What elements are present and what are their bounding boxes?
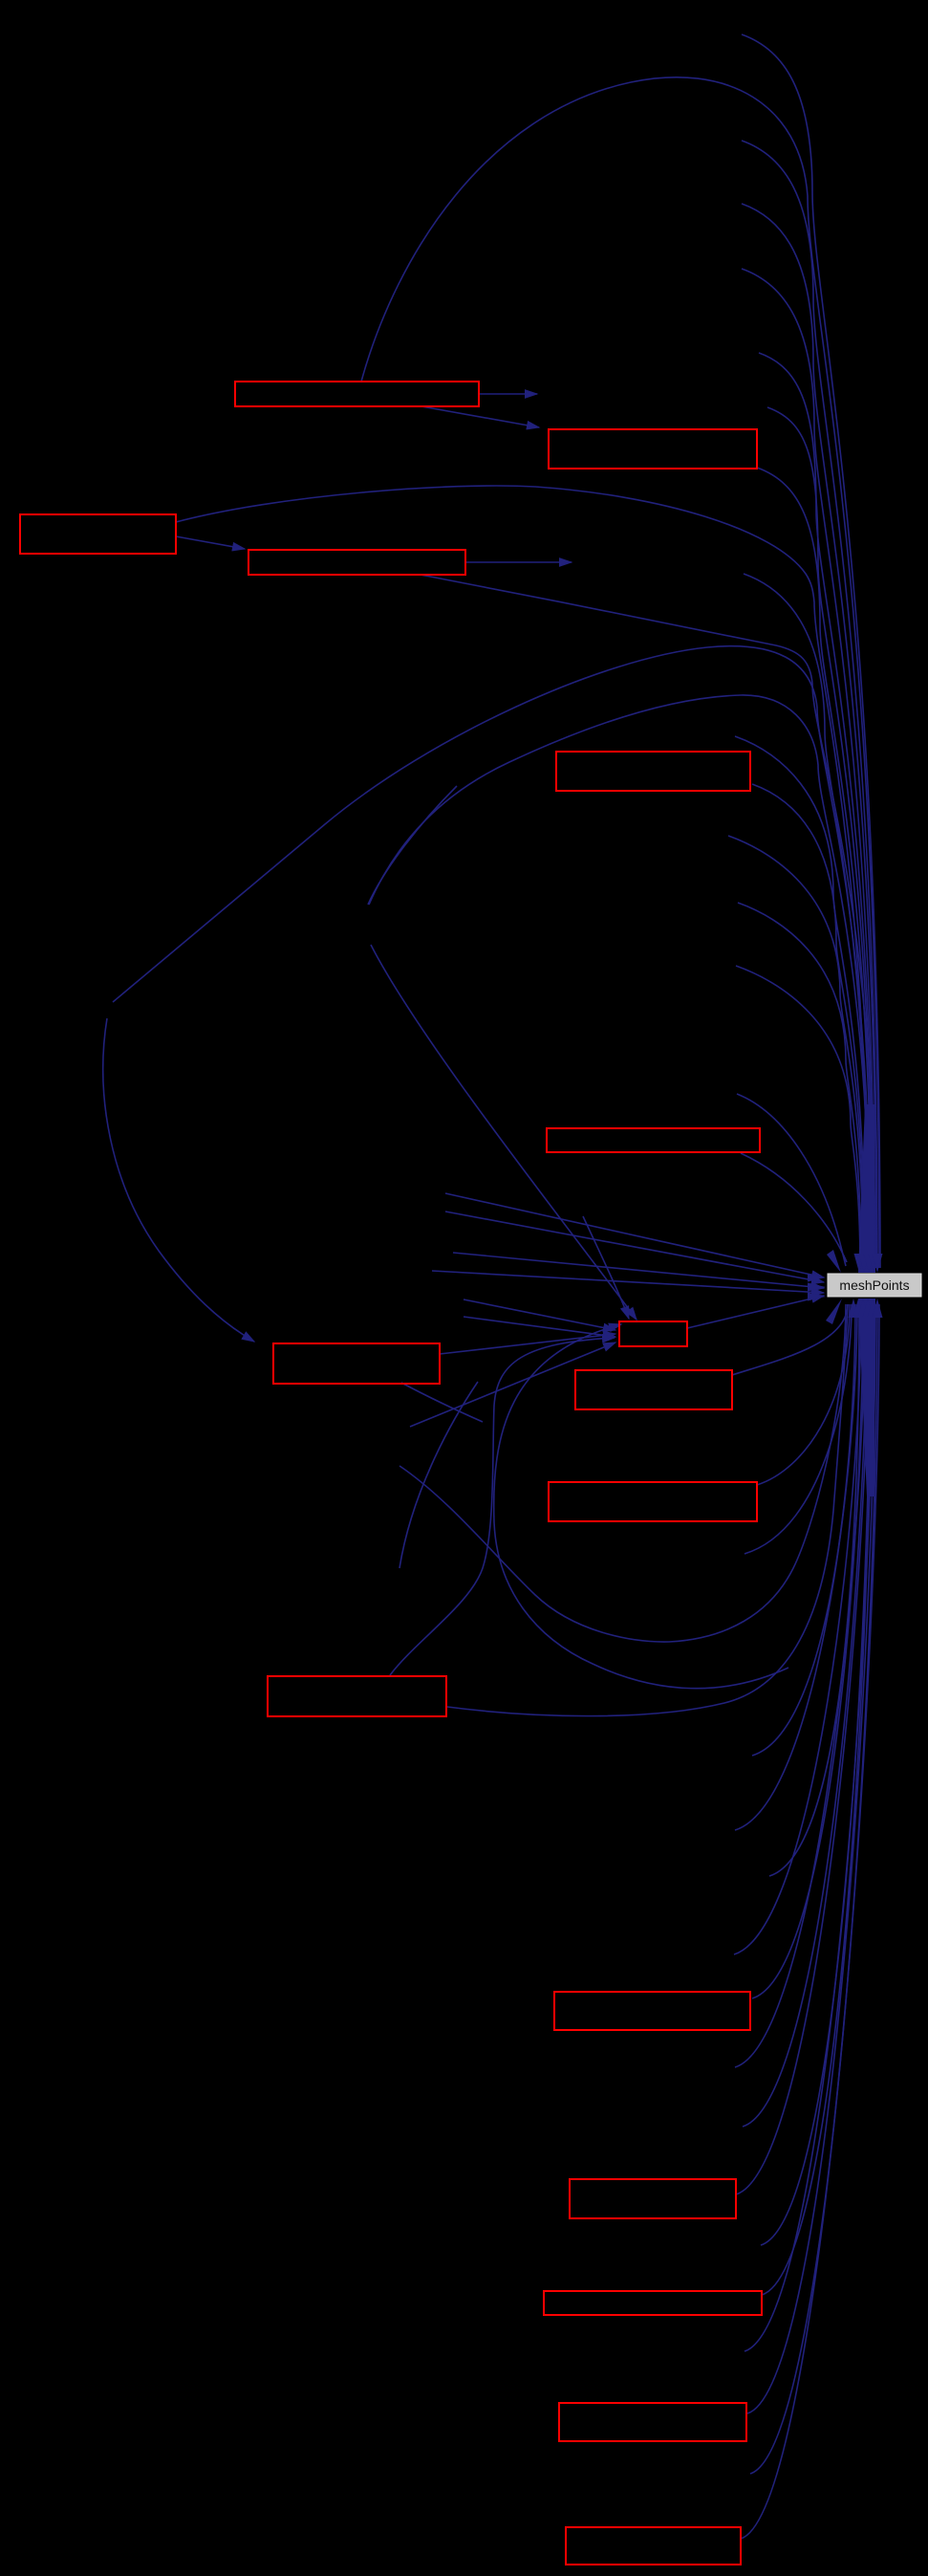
edge box7 to boxA (440, 1334, 615, 1354)
node box5 (556, 752, 750, 791)
edge to meshPoints (bottom bundle) (736, 1304, 869, 2194)
arrow into meshPoints bottom-left corner (826, 1299, 842, 1324)
node meshPoints (828, 1274, 921, 1297)
edge box1 to box2 (arrow) (421, 406, 539, 427)
node box14 (559, 2403, 746, 2441)
edge to meshPoints (bottom bundle) (752, 1304, 863, 1998)
node box11 (554, 1992, 750, 2030)
edge to meshPoints (top bundle) (759, 353, 874, 1268)
edge to meshPoints (bottom bundle) (745, 1304, 874, 2351)
edge boxA to meshPoints (687, 1296, 824, 1328)
edge to meshPoints (top bundle) (742, 34, 880, 1268)
edge to meshPoints (left fan) (445, 1193, 824, 1277)
node box2 (549, 429, 757, 469)
edge to boxA (fan 1) (464, 1299, 615, 1330)
arrowhead cluster into meshPoints left edge (808, 1274, 826, 1282)
node box4 (248, 550, 465, 575)
edge left node to box7 (big left arc) (103, 1018, 254, 1342)
edge to meshPoints (bottom bundle) (750, 1304, 877, 2474)
node box10 (268, 1676, 446, 1716)
edge to meshPoints (top bundle) (767, 407, 873, 1268)
edge to meshPoints (bottom bundle) (734, 1304, 861, 1954)
edge box10 to boxA (S climber) (390, 1338, 615, 1675)
edge to boxA (steep diagonal) (371, 945, 637, 1320)
edge to meshPoints (diagonal 1144) (737, 1094, 846, 1266)
edge to boxA (fan 2) (464, 1317, 615, 1337)
edge to meshPoints (bottom bundle) (732, 1304, 848, 1375)
edge right node to boxA (dip loop) (494, 1324, 788, 1689)
edge box4 to hidden node (arrow) (465, 561, 572, 563)
edge segment crossing 1 (399, 1382, 478, 1568)
edge to meshPoints (bottom bundle) (757, 1304, 850, 1485)
edge box3 to meshPoints (flat arc) (176, 486, 868, 1268)
node box1 (235, 382, 479, 406)
edge to meshPoints (bottom bundle) (745, 1304, 852, 1554)
edge to meshPoints (bottom bundle) (741, 1304, 879, 2539)
edge box1 to meshPoints (big arc) (361, 77, 879, 1268)
edge to meshPoints (bottom bundle) (761, 1304, 871, 2245)
edge to meshPoints (bottom bundle) (747, 1304, 875, 2413)
node box9 (549, 1482, 757, 1521)
edge to meshPoints (left fan) (432, 1271, 824, 1293)
arrow into meshPoints top-left corner (827, 1250, 841, 1273)
edge to meshPoints (top bundle) (744, 574, 869, 1268)
node box8 (575, 1370, 732, 1409)
node box12 (570, 2179, 736, 2218)
edge to meshPoints (left fan) (453, 1253, 824, 1288)
edge to meshPoints (bottom bundle) (743, 1304, 867, 2127)
node box15 (566, 2527, 741, 2565)
edge box4 diagonal to meshPoints (421, 575, 875, 1268)
edge to meshPoints (left fan) (445, 1212, 824, 1282)
edge left node to meshPoints (hill arc) (113, 646, 871, 1268)
node box7 (273, 1343, 440, 1384)
edge to meshPoints (bottom bundle) (762, 1304, 872, 2295)
edge to meshPoints (bottom bundle) (752, 1304, 855, 1756)
edge to meshPoints (top bundle) (757, 468, 872, 1268)
arrowhead cluster into meshPoints bottom (849, 1299, 859, 1318)
node boxA (619, 1321, 687, 1346)
edge box10 to meshPoints (sweep) (447, 1304, 848, 1716)
edge to meshPoints (bottom bundle) (769, 1304, 859, 1876)
edge box3 to box4 (arrow) (176, 536, 245, 549)
edge to meshPoints (bottom bundle) (735, 1304, 857, 1830)
solid pillar bar below meshPoints (858, 1299, 875, 1496)
edge to meshPoints (top bundle) (752, 784, 864, 1268)
edge to meshPoints (top bundle) (742, 269, 874, 1268)
edge to meshPoints (top bundle) (728, 836, 863, 1268)
edge to meshPoints (top bundle) (735, 736, 865, 1268)
solid pillar bar above meshPoints (858, 1104, 875, 1273)
svg-text:meshPoints: meshPoints (839, 1277, 909, 1293)
edge to meshPoints (top bundle) (742, 204, 876, 1268)
edge to boxA (steep short) (583, 1216, 629, 1319)
edge lower node to boxA (410, 1343, 615, 1427)
node box3 (20, 514, 176, 554)
edge mid node to meshPoints (hill arc 2) (369, 695, 870, 1268)
edge to meshPoints (top bundle) (742, 141, 877, 1268)
edge box6 to meshPoints (741, 1153, 847, 1262)
node box13 (544, 2291, 762, 2315)
edge to meshPoints (top bundle) (736, 966, 860, 1268)
edge to meshPoints (top bundle) (738, 903, 861, 1268)
node box6 (547, 1128, 760, 1152)
edge lower-left node to meshPoints (sweep) (399, 1304, 846, 1642)
edge to meshPoints (bottom bundle) (735, 1304, 865, 2067)
edge segment from box7 bottom (401, 1383, 483, 1422)
edge segment into mid node (368, 786, 457, 905)
edge box1 to hidden node (arrow) (479, 393, 537, 395)
arrowhead cluster into meshPoints top (854, 1254, 865, 1273)
